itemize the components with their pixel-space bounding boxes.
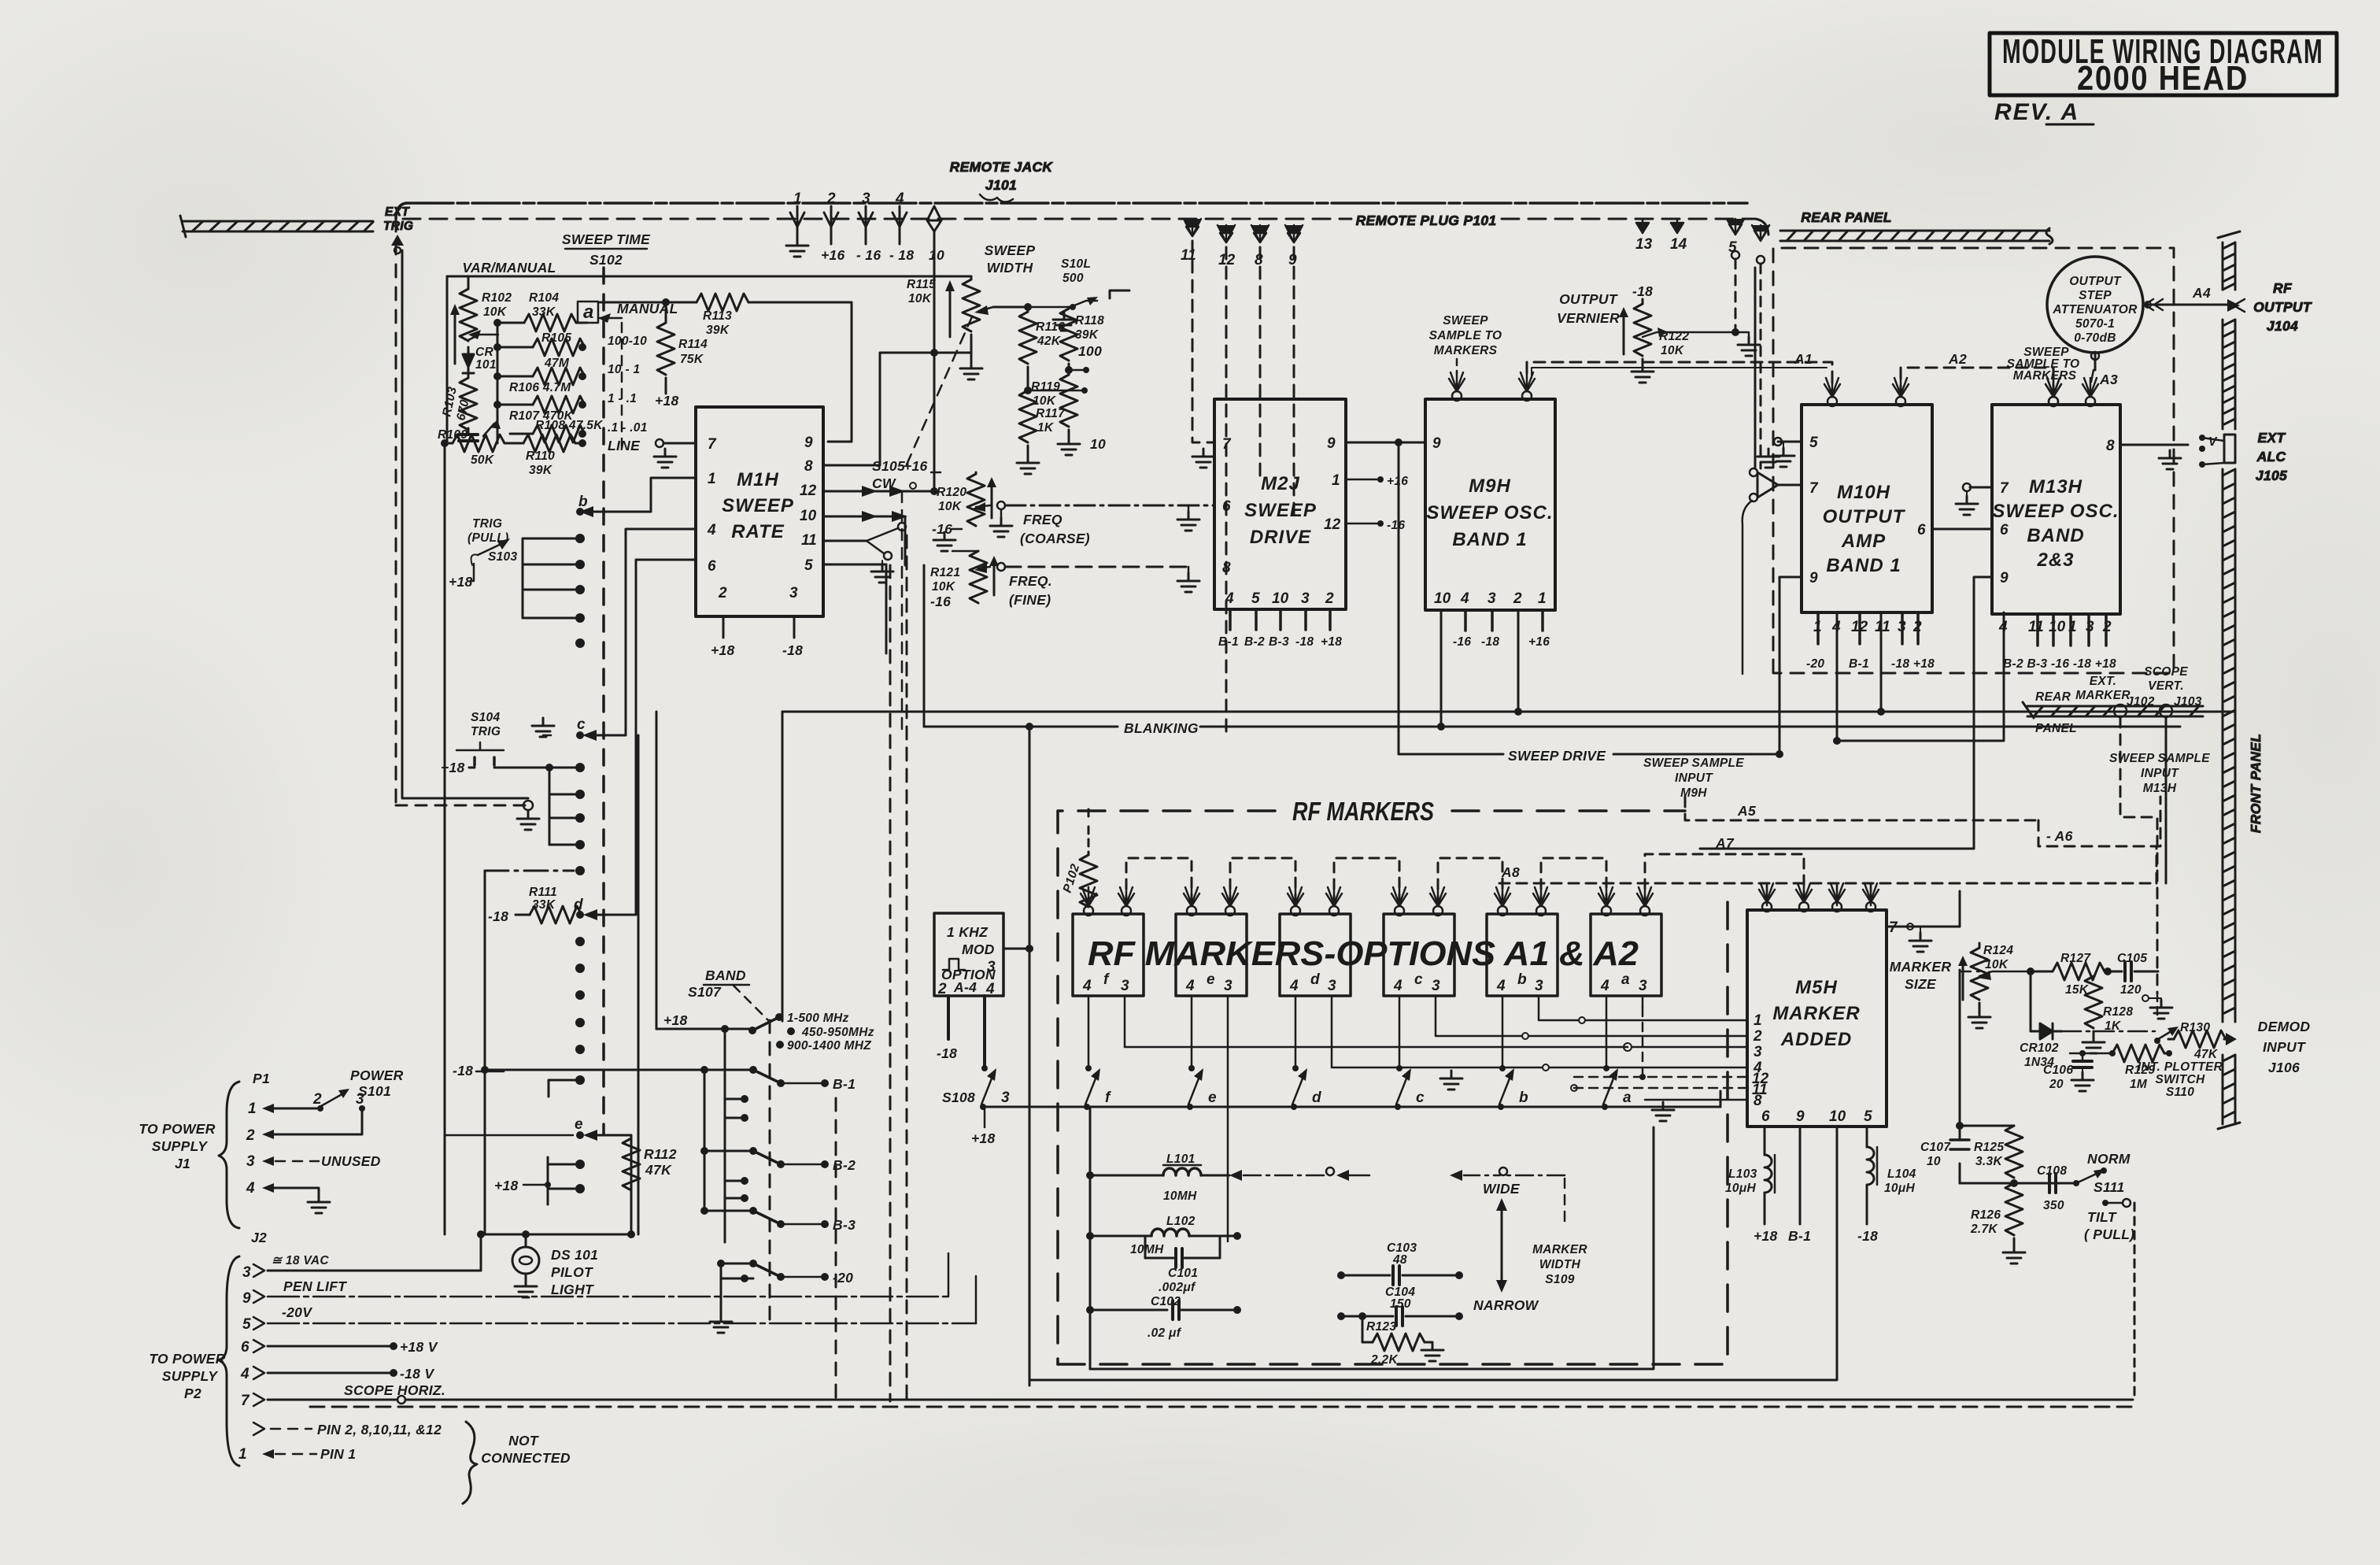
svg-text:39K: 39K	[1075, 328, 1099, 342]
R102 10K potentiometer	[460, 289, 477, 341]
svg-text:10K: 10K	[932, 580, 956, 594]
wire R121 wiper dashed to M2J pin8	[1005, 566, 1188, 568]
svg-text:LIGHT: LIGHT	[551, 1282, 594, 1297]
S107 dashed pointer	[734, 986, 768, 1020]
R119/R116 junction row	[1028, 390, 1085, 392]
svg-text:8: 8	[1222, 560, 1231, 576]
svg-text:BAND: BAND	[2027, 525, 2084, 546]
svg-text:3: 3	[356, 1091, 364, 1108]
svg-text:-16: -16	[1387, 519, 1405, 532]
attenuator out wire to J104	[2143, 304, 2227, 306]
svg-text:VERT.: VERT.	[2148, 679, 2184, 693]
svg-text:10: 10	[1829, 1108, 1846, 1125]
aux dashed drop	[835, 1098, 837, 1406]
svg-text:6: 6	[1761, 1108, 1770, 1125]
svg-text:REMOTE PLUG P101: REMOTE PLUG P101	[1356, 213, 1497, 228]
svg-text:(FINE): (FINE)	[1009, 592, 1051, 608]
svg-text:-20: -20	[833, 1270, 853, 1286]
wafer stub with dashed feed	[485, 870, 574, 872]
svg-text:REAR: REAR	[2035, 690, 2071, 704]
svg-text:+16: +16	[904, 458, 928, 474]
dashed hat c-b	[1438, 858, 1502, 905]
bottom dashed border	[310, 1406, 2134, 1408]
svg-text:EXT: EXT	[2258, 430, 2286, 446]
R119 10K	[1060, 375, 1077, 427]
+18 under S108	[984, 1107, 986, 1127]
R112 47K on riser	[623, 1138, 640, 1190]
M9H top terminal right	[1519, 372, 1535, 401]
svg-text:10 - 1: 10 - 1	[608, 363, 640, 376]
svg-text:R108 47.5K: R108 47.5K	[535, 419, 604, 432]
svg-text:S104: S104	[471, 711, 500, 724]
svg-text:5: 5	[1251, 590, 1260, 607]
svg-text:MARKER: MARKER	[1532, 1243, 1587, 1256]
S107 band arm	[752, 1019, 776, 1030]
dashed drop from terminal 5	[1735, 259, 1737, 332]
svg-text:20: 20	[2049, 1078, 2064, 1091]
NC brace	[463, 1422, 477, 1504]
svg-text:A3: A3	[2099, 372, 2118, 387]
svg-text:500: 500	[1062, 272, 1084, 285]
svg-text:BLANKING: BLANKING	[1124, 720, 1199, 736]
J104 connector chevron	[2227, 299, 2240, 312]
svg-text:+18: +18	[449, 574, 473, 590]
wire R102 to ladder	[468, 347, 470, 369]
svg-text:INPUT: INPUT	[1675, 771, 1713, 785]
capacitor at R103 bottom	[459, 435, 478, 441]
svg-text:R102: R102	[482, 291, 512, 305]
svg-text:WIDTH: WIDTH	[987, 260, 1033, 276]
svg-text:SWEEP SAMPLE: SWEEP SAMPLE	[1643, 757, 1744, 770]
svg-text:VAR/MANUAL: VAR/MANUAL	[462, 260, 556, 276]
module M13H box	[1992, 405, 2120, 614]
svg-text:6: 6	[241, 1339, 249, 1356]
bus line horizontal	[782, 711, 2234, 713]
svg-text:S103: S103	[488, 550, 517, 564]
remote plug terminal 14	[1671, 219, 1683, 233]
svg-text:10: 10	[800, 508, 817, 524]
dashed hat b-a	[1541, 858, 1606, 905]
svg-text:CR102: CR102	[2020, 1041, 2059, 1055]
svg-text:c: c	[1416, 1090, 1425, 1106]
svg-text:c: c	[577, 716, 586, 733]
wire var/manual rail left drop	[446, 276, 449, 443]
S111 switch	[2073, 1180, 2079, 1186]
manual range bracket dashed	[621, 323, 623, 449]
marker switch b	[1499, 1065, 1506, 1071]
option box b	[1487, 914, 1558, 996]
svg-text:RATE: RATE	[731, 521, 785, 542]
svg-text:-18: -18	[453, 1063, 473, 1078]
svg-text:- A6: - A6	[2046, 828, 2073, 844]
marker switch f	[1085, 1065, 1092, 1071]
svg-text:B-1: B-1	[1849, 657, 1869, 671]
svg-text:2&3: 2&3	[2036, 549, 2074, 571]
svg-text:-18: -18	[1481, 635, 1499, 649]
svg-text:b: b	[1517, 971, 1527, 988]
J102 jack circle	[2114, 705, 2127, 717]
J103 drop	[2165, 717, 2167, 883]
line terminal circle + ground	[656, 439, 663, 447]
svg-text:+18: +18	[1321, 635, 1342, 649]
svg-text:R110: R110	[526, 450, 555, 463]
CR101 diode	[463, 354, 474, 373]
svg-text:SWEEP: SWEEP	[1244, 500, 1317, 521]
rear panel hatched bar top	[1780, 228, 2053, 244]
aux contacts under B-1	[725, 1029, 745, 1242]
svg-text:5: 5	[1809, 435, 1818, 451]
svg-text:DEMOD: DEMOD	[2258, 1019, 2311, 1034]
lone wafer dot	[575, 638, 585, 648]
svg-text:L103: L103	[1728, 1167, 1757, 1181]
svg-text:1-500 MHz: 1-500 MHz	[787, 1012, 849, 1025]
svg-text:RF: RF	[2273, 280, 2293, 296]
remote plug terminal 4	[1752, 225, 1769, 241]
attenuator bottom stub + A3	[2094, 353, 2097, 370]
svg-text:10: 10	[1272, 590, 1289, 607]
svg-text:R104: R104	[529, 291, 559, 305]
svg-text:SCOPE HORIZ.: SCOPE HORIZ.	[344, 1382, 445, 1398]
EXT ALC contacts	[2199, 435, 2205, 441]
svg-text:4: 4	[1496, 978, 1506, 994]
svg-text:8: 8	[1754, 1093, 1762, 1109]
svg-text:900-1400 MHZ: 900-1400 MHZ	[787, 1039, 871, 1053]
svg-text:4: 4	[707, 522, 716, 538]
svg-text:ATTENUATOR: ATTENUATOR	[2052, 303, 2138, 316]
option box d	[1280, 914, 1351, 996]
S10L contact	[1028, 301, 1097, 307]
svg-text:POWER: POWER	[350, 1067, 404, 1083]
svg-text:4: 4	[985, 981, 995, 997]
module M10H box	[1802, 405, 1932, 612]
buffer triangle	[1757, 472, 1778, 498]
svg-text:.002μf: .002μf	[1159, 1281, 1196, 1294]
S103 contact column	[522, 538, 524, 618]
svg-text:.02 μf: .02 μf	[1147, 1326, 1182, 1340]
svg-text:4: 4	[246, 1180, 255, 1197]
R103 670 vertical resistor	[468, 373, 470, 378]
svg-text:A8: A8	[1501, 864, 1520, 880]
svg-text:INPUT: INPUT	[2263, 1039, 2306, 1055]
svg-text:10: 10	[929, 247, 944, 263]
J106 chevron	[2226, 1033, 2237, 1045]
svg-text:SUPPLY: SUPPLY	[162, 1368, 219, 1384]
R122 wiper wire to term5 drop	[1643, 332, 1735, 337]
svg-text:2: 2	[937, 981, 947, 997]
option box e	[1176, 914, 1247, 996]
svg-text:11: 11	[1181, 247, 1196, 264]
svg-text:75K: 75K	[680, 353, 704, 366]
S104 wire to rail	[494, 767, 549, 769]
svg-text:REAR PANEL: REAR PANEL	[1801, 209, 1891, 225]
svg-text:M9H: M9H	[1469, 475, 1511, 497]
svg-text:120: 120	[2120, 983, 2142, 997]
svg-text:b: b	[1519, 1090, 1528, 1106]
svg-text:R117: R117	[1036, 407, 1066, 420]
svg-text:12: 12	[1324, 516, 1341, 533]
svg-text:10K: 10K	[1661, 344, 1685, 357]
marker switch c	[1396, 1065, 1402, 1071]
svg-text:47K: 47K	[645, 1162, 672, 1178]
svg-text:R126: R126	[1971, 1208, 2001, 1222]
module M1H box	[696, 407, 823, 616]
svg-text:ALC: ALC	[2256, 449, 2286, 464]
svg-text:4: 4	[1460, 590, 1469, 607]
dashed hat d-c	[1334, 858, 1399, 905]
ground at J102 drop	[2156, 993, 2159, 1016]
pin3 bus a dashed	[1642, 996, 1644, 1008]
blanking line	[924, 726, 2180, 728]
remote jack terminal 10 diamond	[927, 206, 941, 231]
svg-text:- 18: - 18	[889, 247, 914, 263]
svg-text:+18: +18	[655, 393, 679, 409]
svg-text:12: 12	[800, 483, 817, 499]
1khz pin4 stub to S108	[983, 996, 986, 1065]
svg-text:+18: +18	[971, 1130, 996, 1146]
R117 1K	[1019, 390, 1037, 442]
1khz pin3 wire	[1003, 948, 1029, 950]
svg-text:2: 2	[826, 191, 836, 207]
svg-text:0-70dB: 0-70dB	[2074, 331, 2116, 345]
wire rail down to R102	[468, 276, 470, 289]
svg-text:J101: J101	[985, 177, 1017, 193]
svg-text:UNUSED: UNUSED	[321, 1153, 381, 1169]
svg-text:FRONT PANEL: FRONT PANEL	[2248, 734, 2264, 833]
svg-text:3: 3	[246, 1153, 255, 1170]
svg-text:3: 3	[1535, 978, 1543, 994]
wire R109 left vertical down	[444, 443, 446, 1234]
B-2 group	[704, 1070, 706, 1151]
svg-text:2: 2	[718, 585, 727, 601]
svg-text:MARKERS: MARKERS	[2013, 369, 2077, 383]
svg-text:1: 1	[248, 1101, 257, 1117]
svg-text:2000 HEAD: 2000 HEAD	[2077, 59, 2249, 98]
scope horiz long line	[405, 1399, 2133, 1401]
svg-text:R106 4.7M: R106 4.7M	[509, 381, 571, 394]
svg-text:3: 3	[1432, 978, 1440, 994]
svg-text:4: 4	[1998, 619, 2008, 635]
svg-text:A7: A7	[1715, 835, 1735, 851]
R102 arrow	[454, 309, 456, 364]
R128 1K	[2085, 976, 2102, 1028]
svg-text:M10H: M10H	[1837, 482, 1890, 503]
wire pin11 switch	[823, 540, 867, 542]
svg-text:M2J: M2J	[1261, 473, 1300, 494]
svg-text:TRIG: TRIG	[471, 725, 501, 738]
svg-text:10μH: 10μH	[1725, 1182, 1756, 1195]
wafer stub L	[549, 1080, 580, 1097]
svg-text:2: 2	[1325, 590, 1334, 607]
left vertical feeds	[656, 712, 658, 1029]
ext trig feed wire solid	[402, 250, 528, 798]
R115 wiper arrow	[979, 307, 993, 311]
svg-text:OUTPUT: OUTPUT	[1823, 506, 1906, 527]
svg-text:R114: R114	[678, 338, 708, 351]
svg-text:PIN 2, 8,10,11, &12: PIN 2, 8,10,11, &12	[317, 1422, 442, 1437]
long dashed pair down from pin11	[889, 565, 892, 1401]
-20 group	[721, 1263, 753, 1278]
A6 dashed route	[2038, 797, 2160, 846]
bottom rail of marker box	[1090, 1127, 1654, 1369]
svg-text:TO POWER: TO POWER	[139, 1121, 215, 1137]
svg-text:6: 6	[1222, 498, 1231, 515]
wire e right riser	[596, 1135, 631, 1234]
svg-text:7: 7	[241, 1393, 250, 1409]
svg-text:A2: A2	[1948, 351, 1967, 367]
M5H pin9 stub	[1799, 1127, 1802, 1224]
svg-text:4: 4	[1225, 590, 1234, 607]
A2 spray left into M10H	[1893, 378, 1909, 406]
svg-text:1: 1	[793, 191, 802, 207]
svg-text:( PULL): ( PULL)	[2084, 1226, 2134, 1242]
svg-text:1: 1	[708, 471, 716, 487]
A2 dashed route	[1901, 368, 2053, 397]
svg-text:6: 6	[1917, 522, 1926, 538]
left column wire	[1089, 1107, 1092, 1369]
svg-text:9: 9	[1327, 435, 1336, 452]
front panel hatched bar	[2218, 231, 2240, 1129]
svg-text:1: 1	[1754, 1012, 1762, 1029]
svg-text:450-950MHz: 450-950MHz	[801, 1026, 874, 1039]
svg-text:7: 7	[1809, 480, 1819, 497]
svg-text:V: V	[2208, 435, 2218, 449]
sweep sample spray mid	[2046, 378, 2061, 406]
svg-text:C102: C102	[1151, 1295, 1181, 1308]
svg-text:2.7K: 2.7K	[1970, 1223, 1998, 1236]
svg-text:3: 3	[1301, 590, 1310, 607]
J2 row pin2 8 10 11 12 nc	[253, 1423, 264, 1435]
svg-text:7: 7	[2000, 480, 2009, 497]
svg-text:C107: C107	[1920, 1141, 1951, 1154]
A5 dashed route	[1685, 797, 2038, 820]
svg-text:TRIG: TRIG	[472, 517, 502, 531]
ground at ext trig feed	[517, 811, 539, 830]
svg-text:C108: C108	[2037, 1164, 2067, 1178]
P2 brace	[219, 1256, 239, 1466]
svg-text:NOT: NOT	[508, 1433, 539, 1448]
svg-text:e: e	[1207, 971, 1215, 988]
S109 wiper contact 1	[1229, 1170, 1242, 1181]
title block box	[1990, 33, 2337, 95]
svg-text:100: 100	[1078, 343, 1102, 359]
svg-text:10: 10	[1434, 590, 1451, 607]
INT PLOTTER SWITCH S110	[2158, 1030, 2174, 1039]
ground under R115 wiper leg	[970, 353, 973, 361]
svg-text:MARKER: MARKER	[1772, 1003, 1860, 1024]
svg-text:-20V: -20V	[282, 1304, 312, 1320]
wire a to manual arrow	[600, 317, 622, 320]
svg-text:a: a	[1621, 971, 1630, 988]
EXT TRIG hatched bar	[180, 216, 373, 237]
blanking riser	[923, 565, 926, 727]
pin3 bus b	[1539, 996, 1579, 1020]
module M2J box	[1214, 399, 1346, 609]
e-wafer aux contacts	[548, 1157, 575, 1204]
svg-text:5: 5	[804, 557, 813, 574]
svg-text:REV. A: REV. A	[1994, 99, 2079, 125]
svg-text:C101: C101	[1168, 1267, 1198, 1280]
svg-text:J106: J106	[2268, 1060, 2300, 1075]
svg-text:- 16: - 16	[856, 247, 881, 263]
svg-text:(COARSE): (COARSE)	[1020, 531, 1090, 546]
TILT dashed drop	[2134, 1203, 2136, 1400]
svg-text:100-10: 100-10	[608, 335, 647, 348]
svg-text:1K: 1K	[1037, 421, 1055, 435]
S105 dashed diagonal	[907, 313, 974, 464]
svg-text:47K: 47K	[2193, 1048, 2219, 1061]
R106 4.7M	[497, 376, 533, 378]
svg-text:-16: -16	[932, 521, 952, 537]
svg-text:R121: R121	[930, 566, 960, 579]
svg-text:AMP: AMP	[1841, 531, 1886, 552]
svg-text:MARKERS: MARKERS	[1434, 344, 1498, 357]
svg-text:10: 10	[1090, 436, 1106, 452]
svg-text:LINE: LINE	[608, 438, 641, 453]
wire R113 row to M1H pin9	[828, 302, 852, 442]
RF MARKERS dashed region top-right edge	[1452, 809, 1685, 812]
option box f	[1073, 914, 1144, 996]
remote jack terminal 1	[790, 206, 804, 227]
bus 8 with ground	[1645, 1099, 1747, 1101]
remote jack terminals 11 12 8 9	[1184, 219, 1303, 242]
R108 47.5K	[510, 433, 533, 435]
svg-text:OUTPUT: OUTPUT	[2253, 299, 2312, 315]
svg-text:TILT: TILT	[2087, 1209, 2117, 1225]
rear panel 2 hatched bar	[2023, 702, 2203, 718]
S103 switch arm	[478, 542, 504, 555]
svg-text:-18 V: -18 V	[400, 1366, 434, 1382]
svg-text:DRIVE: DRIVE	[1250, 527, 1311, 548]
S110 dash-dot gang	[2062, 1030, 2155, 1033]
svg-text:13: 13	[1635, 236, 1653, 253]
wire pin12 row with contacts	[823, 490, 934, 493]
M5H pin10 long wire	[1029, 1127, 1837, 1380]
svg-text:B-1: B-1	[1788, 1228, 1811, 1244]
wire triangle lower input from sweep drive	[1743, 501, 1752, 674]
C107 10	[1959, 970, 1961, 1126]
R120 wiper	[976, 505, 990, 507]
svg-text:SWEEP OSC.: SWEEP OSC.	[1426, 502, 1553, 524]
svg-text:R124: R124	[1983, 944, 2013, 957]
J1 brace	[219, 1082, 239, 1228]
S101 switch arm	[321, 1093, 345, 1106]
C106 20	[2079, 1050, 2086, 1056]
svg-text:R115: R115	[907, 278, 936, 291]
svg-text:+18: +18	[441, 760, 465, 775]
A3 spray into M13H	[2082, 378, 2098, 406]
dashed drop 12	[1225, 247, 1228, 734]
S107 gang dashed	[769, 1020, 771, 1323]
wire M10H pin11 drop	[1880, 612, 1883, 712]
svg-text:-20: -20	[1806, 657, 1824, 671]
svg-text:S102: S102	[589, 252, 623, 268]
pin3 bus d	[1332, 996, 1543, 1067]
svg-text:P1: P1	[253, 1071, 270, 1086]
svg-text:A-4: A-4	[953, 979, 977, 995]
S104 pushbutton	[456, 742, 504, 750]
svg-text:B-2: B-2	[833, 1157, 856, 1173]
svg-text:A5: A5	[1737, 803, 1756, 819]
dashed hat f-e	[1126, 858, 1192, 905]
svg-text:WIDTH: WIDTH	[1539, 1258, 1581, 1271]
dashed hat a-M5H A7	[1645, 854, 1804, 905]
svg-text:7: 7	[708, 436, 717, 453]
svg-text:1: 1	[238, 1446, 247, 1463]
wire R120 wiper dashdot to M2J pin6	[1005, 505, 1214, 507]
svg-text:3: 3	[1001, 1090, 1010, 1106]
svg-text:A1: A1	[1794, 351, 1813, 367]
svg-text:SAMPLE TO: SAMPLE TO	[1429, 329, 1502, 342]
